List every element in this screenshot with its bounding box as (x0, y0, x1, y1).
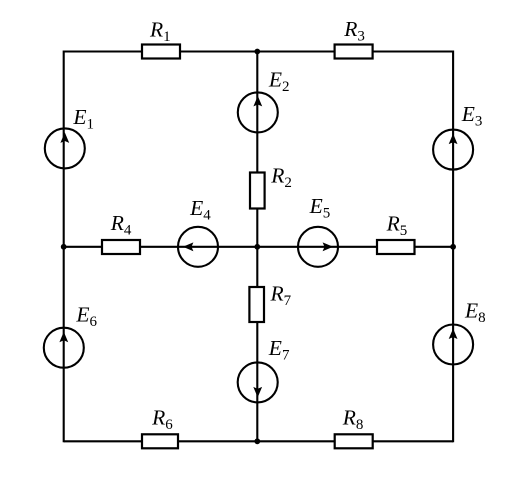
source E1 (45, 105, 94, 168)
node bottom junction (254, 438, 260, 444)
source E6 (44, 303, 98, 368)
resistor R5 (377, 212, 415, 254)
wire middle horizontal (64, 246, 453, 248)
wire left (63, 51, 65, 443)
resistor R6 (142, 406, 178, 449)
source E8 (433, 299, 486, 365)
wire bottom (64, 440, 453, 442)
resistor R4 (102, 211, 140, 254)
wire middle vertical (256, 52, 258, 442)
resistor R3 (335, 17, 373, 59)
resistor R1 (142, 17, 180, 58)
resistor R8 (335, 406, 373, 449)
node left middle junction (61, 244, 67, 250)
source E5 (298, 194, 338, 267)
node center junction (254, 244, 260, 250)
node top junction (254, 49, 260, 55)
resistor R7 (249, 282, 291, 323)
wire right (452, 51, 454, 443)
resistor R2 (250, 163, 292, 208)
wire top (left corner to right corner) (64, 50, 453, 52)
source E2 (238, 68, 290, 133)
source E7 (238, 336, 290, 403)
source E4 (178, 196, 218, 267)
source E3 (433, 102, 482, 169)
node right middle junction (450, 244, 456, 250)
